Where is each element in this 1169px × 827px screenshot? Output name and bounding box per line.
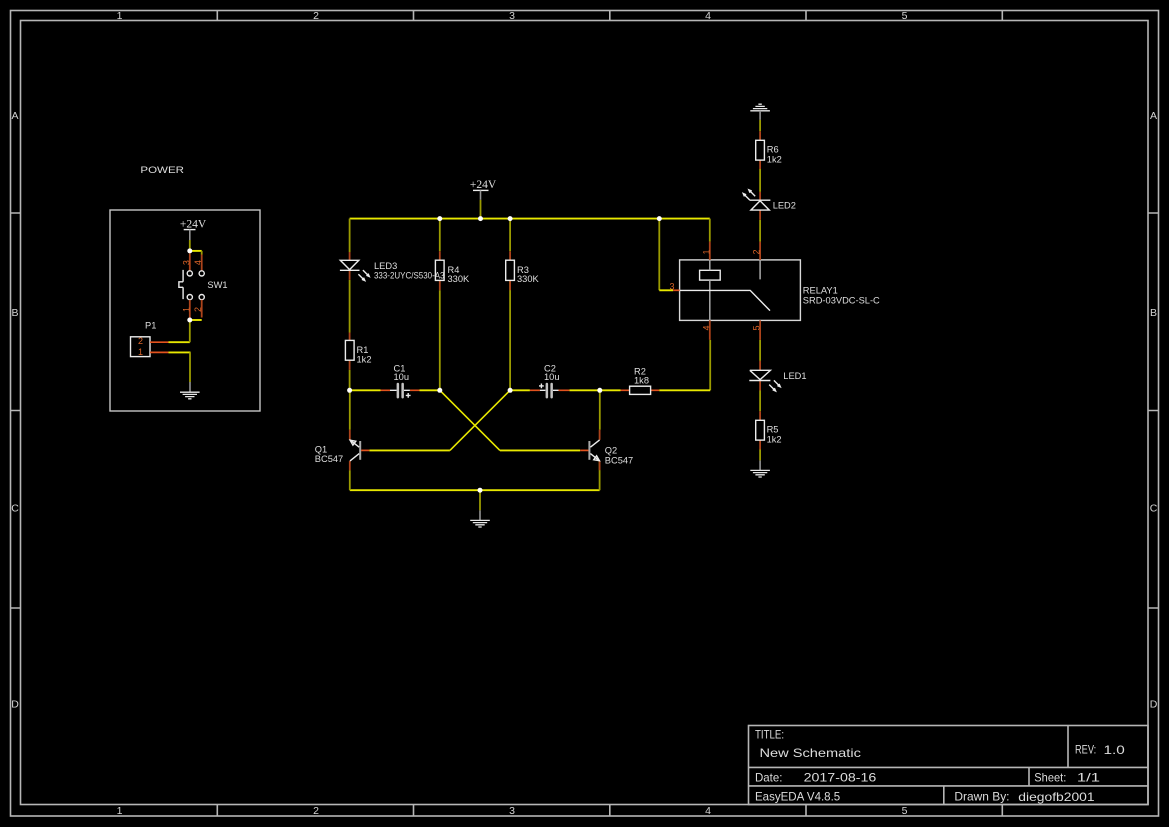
svg-text:2017-08-16: 2017-08-16 (804, 771, 877, 785)
svg-text:2: 2 (193, 307, 203, 312)
svg-text:1k2: 1k2 (357, 355, 372, 365)
svg-text:1.0: 1.0 (1104, 743, 1126, 757)
svg-text:10u: 10u (394, 372, 410, 382)
svg-text:333-2UYC/S530-A3: 333-2UYC/S530-A3 (374, 271, 445, 281)
svg-text:SRD-03VDC-SL-C: SRD-03VDC-SL-C (803, 295, 880, 305)
svg-text:1: 1 (117, 805, 123, 817)
svg-text:B: B (1150, 307, 1157, 319)
svg-text:R1: R1 (357, 345, 369, 355)
svg-text:4: 4 (701, 325, 711, 330)
svg-text:330K: 330K (448, 274, 471, 284)
svg-text:1: 1 (181, 307, 191, 312)
svg-text:2: 2 (138, 336, 143, 346)
svg-text:2: 2 (752, 249, 762, 254)
svg-text:1: 1 (138, 347, 143, 357)
svg-text:RELAY1: RELAY1 (803, 285, 838, 295)
svg-text:B: B (11, 307, 18, 319)
svg-text:2: 2 (313, 10, 319, 22)
svg-text:+24V: +24V (180, 219, 207, 231)
svg-text:TITLE:: TITLE: (755, 728, 784, 742)
svg-text:1/1: 1/1 (1077, 771, 1101, 785)
svg-text:LED3: LED3 (374, 261, 397, 271)
svg-text:POWER: POWER (140, 165, 184, 175)
svg-text:R5: R5 (767, 425, 779, 435)
svg-text:BC547: BC547 (315, 454, 343, 464)
svg-text:SW1: SW1 (207, 280, 227, 290)
svg-text:3: 3 (181, 260, 191, 265)
svg-text:BC547: BC547 (605, 455, 633, 465)
svg-text:EasyEDA V4.8.5: EasyEDA V4.8.5 (755, 790, 841, 804)
svg-text:Date:: Date: (755, 771, 782, 785)
svg-text:LED2: LED2 (773, 201, 796, 211)
svg-text:D: D (1150, 699, 1158, 711)
svg-text:1k8: 1k8 (634, 375, 649, 385)
svg-text:A: A (11, 110, 18, 122)
svg-text:2: 2 (313, 805, 319, 817)
svg-text:1: 1 (117, 10, 123, 22)
svg-text:5: 5 (752, 325, 762, 330)
svg-text:330K: 330K (517, 274, 540, 284)
svg-text:5: 5 (902, 10, 908, 22)
svg-text:3: 3 (509, 10, 515, 22)
svg-text:4: 4 (193, 260, 203, 265)
svg-text:1: 1 (701, 249, 711, 254)
svg-text:4: 4 (705, 805, 711, 817)
svg-text:LED1: LED1 (783, 371, 806, 381)
svg-text:New Schematic: New Schematic (760, 746, 861, 760)
svg-text:1k2: 1k2 (767, 154, 782, 164)
svg-text:3: 3 (670, 282, 675, 292)
svg-text:+24V: +24V (470, 179, 497, 191)
svg-text:P1: P1 (145, 321, 156, 331)
svg-text:D: D (11, 699, 19, 711)
svg-text:Sheet:: Sheet: (1034, 771, 1066, 785)
svg-text:R6: R6 (767, 145, 779, 155)
svg-text:3: 3 (509, 805, 515, 817)
svg-text:C: C (11, 503, 19, 515)
svg-text:10u: 10u (544, 372, 560, 382)
svg-text:1k2: 1k2 (767, 434, 782, 444)
svg-text:C: C (1150, 503, 1158, 515)
svg-text:5: 5 (902, 805, 908, 817)
svg-text:diegofb2001: diegofb2001 (1018, 790, 1095, 804)
svg-text:4: 4 (705, 10, 711, 22)
svg-text:REV:: REV: (1075, 743, 1096, 757)
svg-text:Drawn By:: Drawn By: (954, 790, 1009, 804)
svg-text:Q1: Q1 (315, 444, 327, 454)
svg-text:Q2: Q2 (605, 445, 617, 455)
svg-text:A: A (1150, 110, 1157, 122)
